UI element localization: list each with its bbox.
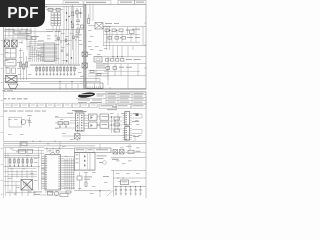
sheet 1 top title box B	[84, 1, 111, 5]
zener diode ZD1	[66, 57, 72, 61]
resistor network RN1	[114, 117, 120, 132]
resistor R10	[88, 14, 90, 24]
label R101	[105, 23, 140, 29]
wire	[20, 141, 130, 150]
wire	[55, 118, 77, 136]
capacitor C10	[76, 14, 80, 27]
sheet 2 top border	[4, 91, 147, 93]
title block text rows	[78, 100, 102, 103]
wire	[107, 57, 109, 80]
transformer T1	[6, 76, 18, 83]
wire	[6, 190, 36, 197]
relay contact K1	[113, 150, 118, 155]
wire	[39, 148, 42, 190]
IC U702	[117, 177, 136, 184]
sheet 1 border tick	[60, 23, 146, 89]
label D10	[126, 58, 141, 61]
wire	[21, 48, 27, 80]
sheet 2 document number	[4, 97, 28, 100]
fuse F2	[56, 8, 63, 11]
resistor R11	[76, 28, 82, 35]
wire	[4, 34, 40, 39]
manufacturer logo	[78, 92, 106, 99]
inductor L10	[128, 150, 141, 153]
connector CN602	[72, 110, 84, 131]
fuse F101	[14, 30, 20, 34]
wire	[97, 117, 122, 126]
node N1	[112, 56, 122, 57]
wire	[109, 121, 123, 129]
bus line GND	[4, 78, 100, 80]
capacitor C20	[28, 115, 32, 126]
bus line B-	[4, 143, 146, 145]
wire	[4, 176, 20, 193]
title block header line	[76, 98, 106, 100]
connector CN101	[86, 83, 103, 88]
resistor R100	[26, 36, 36, 40]
svg-text:PDF: PDF	[7, 5, 39, 22]
note text line	[4, 110, 47, 113]
node J1	[111, 116, 119, 129]
diode row D10	[106, 59, 124, 62]
wire	[90, 4, 93, 21]
wire	[4, 31, 47, 33]
fuse F1	[46, 8, 56, 11]
wire	[4, 156, 40, 158]
sheet 1 border frame	[4, 4, 147, 89]
wire	[103, 75, 146, 77]
resistor R20	[90, 71, 101, 76]
wire	[108, 76, 128, 89]
relay RY2	[88, 23, 111, 51]
header strip box	[75, 148, 112, 153]
IC U22	[100, 122, 109, 128]
wire	[103, 45, 146, 47]
title block lower row	[99, 104, 146, 108]
varistor ZV1	[76, 8, 78, 18]
diode D202	[21, 142, 27, 146]
diode D103	[120, 37, 125, 40]
wire	[103, 56, 146, 58]
wire	[112, 113, 119, 133]
bridge rectifier BD1	[5, 49, 16, 59]
optocoupler PC201	[89, 114, 98, 120]
resistor R3	[20, 62, 22, 67]
resistor array R601-R612	[36, 65, 76, 75]
wire	[104, 41, 140, 43]
wire	[74, 190, 111, 197]
wire	[111, 145, 146, 152]
diode D102	[112, 29, 117, 32]
plug symbol P1	[8, 84, 18, 89]
label note2	[97, 156, 107, 165]
wire	[64, 6, 74, 30]
diode D5	[58, 36, 77, 45]
wire	[46, 26, 61, 32]
thermistor TH1	[130, 30, 135, 33]
capacitor C4	[66, 54, 68, 55]
wire	[4, 170, 37, 178]
resistor R106	[113, 67, 117, 70]
wire	[72, 4, 74, 50]
wire	[88, 70, 108, 76]
wire	[56, 30, 79, 65]
resistor R105	[106, 67, 110, 70]
label note4	[112, 158, 119, 161]
title block table	[106, 92, 146, 104]
capacitor C3	[61, 50, 63, 51]
bus line out	[114, 186, 143, 188]
title block note	[107, 108, 117, 111]
label R105	[119, 66, 132, 69]
label note	[96, 64, 107, 69]
wire	[46, 29, 84, 31]
resistor array R701-R706	[9, 157, 32, 166]
wire	[104, 70, 140, 72]
label pin1	[112, 106, 117, 109]
connector label CN601	[67, 111, 87, 113]
wire	[132, 114, 142, 134]
capacitor C2	[5, 60, 16, 67]
revision table strip	[4, 103, 98, 107]
wire	[30, 64, 80, 65]
wire	[6, 28, 36, 51]
resistor R9	[71, 24, 74, 28]
switch SW1	[94, 57, 102, 63]
relay block RY1	[51, 13, 61, 26]
photocoupler PC2	[82, 63, 88, 68]
wire harness to IC601	[29, 42, 44, 63]
label AC input	[5, 28, 29, 31]
wire	[64, 158, 75, 190]
wire	[103, 63, 146, 65]
jumper J3	[64, 122, 69, 128]
wire	[26, 119, 30, 121]
capacitor C101	[26, 30, 31, 34]
label net name	[132, 121, 139, 137]
sheet 1 top title box D	[135, 0, 147, 4]
IC U21	[100, 114, 109, 120]
transistor Q2	[77, 172, 92, 191]
bus line AGND	[4, 145, 95, 147]
capacitor bank C701-C706 with grounds	[115, 186, 142, 195]
transistor Q1	[21, 119, 26, 126]
sheet 2 border	[4, 92, 147, 198]
node J7	[46, 148, 59, 149]
photocoupler PC1	[82, 52, 88, 57]
resistor R13	[121, 46, 123, 57]
wire	[30, 70, 100, 89]
buzzer BZ1	[54, 191, 58, 195]
bus line VCC	[4, 80, 100, 82]
diode D1	[66, 12, 72, 22]
resistor R12	[117, 46, 119, 57]
wire	[44, 148, 70, 152]
resistor R5	[26, 62, 28, 67]
resistor R102	[119, 29, 123, 32]
label C103	[127, 36, 140, 39]
wire	[104, 27, 144, 46]
wire	[104, 34, 140, 36]
wire	[107, 190, 114, 196]
bus line	[4, 167, 40, 169]
wire	[38, 40, 72, 42]
capacitor C31	[14, 192, 42, 195]
wire	[103, 26, 146, 28]
resistor R1	[6, 68, 10, 74]
connector CN603	[123, 112, 132, 126]
diode D101	[105, 29, 110, 32]
sheet 1 top margin note	[37, 6, 47, 7]
wire	[111, 157, 146, 159]
wire	[84, 116, 89, 129]
wire	[108, 64, 138, 76]
sheet 1 top title box C	[118, 0, 135, 4]
node J5	[32, 141, 55, 145]
capacitor C9	[81, 25, 84, 28]
jumper J2	[58, 122, 63, 128]
capacitor C102	[126, 27, 128, 35]
resistor R103	[108, 37, 112, 40]
noise filter L2	[12, 40, 18, 47]
bus line B+	[4, 140, 146, 142]
resistor R31	[85, 172, 87, 187]
wire	[74, 136, 135, 142]
component value labels sheet 2	[8, 113, 146, 194]
resistor R8	[71, 12, 74, 16]
IC U701 microcontroller	[42, 150, 76, 190]
wire	[128, 46, 133, 57]
capacitor C1	[79, 8, 81, 18]
resistor R30	[40, 191, 71, 197]
wire	[4, 148, 44, 154]
noise filter L1	[4, 32, 24, 47]
wire	[111, 169, 146, 171]
diode D201	[75, 131, 81, 141]
bus line main vertical	[84, 4, 86, 89]
wire	[107, 27, 136, 42]
relay RY701	[75, 153, 96, 171]
capacitor C720	[48, 191, 53, 195]
capacitor C30	[27, 149, 33, 153]
wire	[46, 5, 84, 7]
capacitor C11	[112, 46, 114, 57]
relay contact K2	[120, 150, 125, 155]
transformer T2	[21, 180, 33, 191]
resistor R2	[12, 68, 16, 74]
wire	[114, 177, 147, 179]
wire	[113, 170, 115, 196]
switch S2 outline	[9, 117, 22, 127]
sheet 1 top title box A	[63, 1, 83, 5]
wire	[74, 169, 95, 171]
PDF badge	[0, 0, 45, 27]
margin coordinate labels	[1, 12, 3, 195]
wire	[6, 148, 9, 196]
oscillator X1	[19, 149, 26, 153]
sheet 1 footer page number	[3, 89, 14, 92]
IC U601	[41, 43, 58, 62]
connector CN604	[123, 127, 132, 141]
resistor R104	[115, 37, 119, 40]
diode D210	[136, 113, 139, 116]
optocoupler PC202	[89, 122, 98, 128]
label note3	[103, 175, 109, 178]
resistor R4	[23, 64, 25, 69]
component value labels sheet 1	[5, 24, 108, 77]
